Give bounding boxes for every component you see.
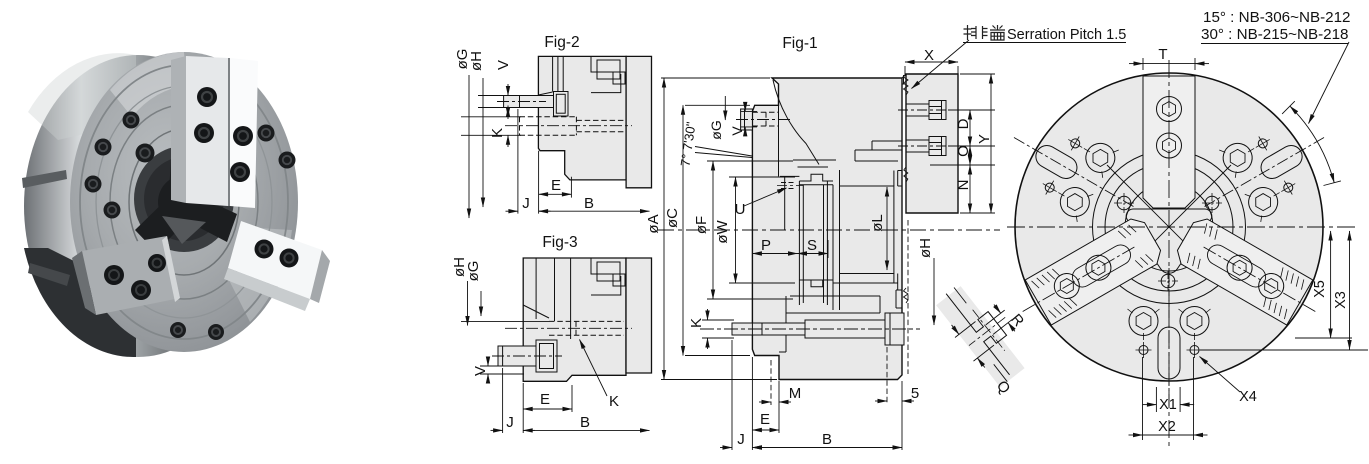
fig1 serration zigzag top [904, 74, 909, 213]
svg-text:øF: øF [693, 216, 710, 234]
fig1 wedge angle lines [695, 147, 752, 158]
fig3 inner verticals [523, 258, 570, 339]
svg-text:E: E [540, 391, 550, 408]
dim X1 [1156, 387, 1180, 412]
fig2 dim B [539, 210, 650, 212]
fig1 lower serration hidden [907, 220, 909, 374]
fig2 thread axis [505, 125, 632, 127]
fig1 dim phiW [729, 177, 795, 283]
svg-text:X3: X3 [1333, 291, 1349, 309]
svg-text:30° : NB-215~NB-218: 30° : NB-215~NB-218 [1201, 26, 1349, 43]
svg-text:K: K [688, 318, 705, 328]
fig1 dim phiF [707, 161, 793, 299]
dim X3 [1349, 231, 1351, 350]
svg-text:Y: Y [976, 134, 993, 144]
svg-text:X1: X1 [1159, 397, 1177, 413]
fig1 draw screw [732, 320, 885, 338]
fig3 dim V [487, 357, 489, 366]
Fig-3 [461, 258, 652, 433]
fig1 plunger castle tab [799, 174, 833, 181]
svg-text:X: X [924, 47, 934, 64]
fig1 dim K [702, 320, 734, 338]
fig1 serration mid zigzag [904, 167, 908, 182]
svg-text:øG: øG [708, 120, 724, 139]
serration note [964, 25, 1006, 40]
svg-text:N: N [955, 180, 972, 191]
fig1 dim phiA [661, 78, 777, 380]
face [70, 52, 298, 352]
svg-text:S: S [807, 237, 817, 254]
fig3 K leader [580, 340, 608, 397]
fig2 dim E [539, 193, 572, 195]
fig2 body piece1 [538, 56, 626, 179]
fig1 dim phiC [685, 105, 750, 355]
fig2 nut [554, 92, 569, 117]
svg-text:øG: øG [465, 261, 482, 282]
jaw 90deg [1143, 76, 1195, 208]
fig2 dim J arrows [506, 210, 518, 212]
fig2 dim V [507, 84, 509, 96]
fig2 dim phiH [482, 78, 484, 207]
fig2 inner verticals [538, 56, 563, 110]
fig1 dim phiH [933, 258, 935, 325]
svg-text:V: V [729, 126, 745, 136]
svg-text:X4: X4 [1239, 389, 1257, 405]
fig3 dim J arrows [491, 429, 503, 431]
gray band [936, 286, 1024, 387]
front view [993, 42, 1368, 448]
top jaw [171, 56, 186, 203]
svg-text:B: B [822, 431, 832, 448]
NB leader [1309, 42, 1350, 124]
fig3 dim E [523, 408, 572, 410]
svg-text:Fig-2: Fig-2 [544, 34, 579, 51]
outer circle [1015, 73, 1323, 381]
jaw 330deg [1025, 214, 1165, 325]
fig1 body outline [752, 78, 902, 380]
svg-text:E: E [760, 411, 770, 428]
spider [135, 148, 237, 252]
drum slot grooves [22, 170, 67, 188]
fig1 dim V top [741, 111, 757, 127]
fig1 master jaw interior [855, 141, 902, 161]
face screws [85, 112, 296, 341]
fig3 body piece1 [523, 258, 626, 381]
fig1 serration leader [912, 40, 970, 89]
fig3 jaw nest detail [591, 258, 626, 274]
jaw 210deg [1172, 214, 1312, 325]
center cross diagonals [1107, 165, 1231, 289]
svg-text:øL: øL [869, 214, 886, 232]
dim Q [955, 321, 994, 361]
fig3 body piece2 [626, 258, 652, 373]
svg-text:J: J [506, 414, 514, 431]
right jaw [228, 221, 322, 299]
tslot profile [946, 280, 1027, 375]
Fig-1 [658, 40, 1000, 450]
fig1 lower interior [779, 274, 898, 353]
svg-text:Fig-1: Fig-1 [782, 35, 817, 52]
fig3 nut [536, 340, 557, 372]
fig2 dim phiG [468, 75, 470, 218]
fig1 jaw block [906, 74, 958, 213]
svg-text:D: D [955, 118, 972, 129]
cross screws r52 [1114, 193, 1222, 291]
fig1 dim M [759, 401, 771, 403]
svg-text:J: J [737, 431, 745, 448]
fig1 dim S [798, 253, 829, 255]
fig1 dim J [720, 447, 732, 449]
svg-text:øA: øA [645, 214, 662, 233]
svg-text:K: K [609, 393, 619, 410]
fig3 stud axis [492, 355, 562, 357]
svg-text:V: V [495, 60, 512, 70]
svg-text:R: R [1007, 311, 1027, 330]
fig2 body piece2 [626, 56, 651, 187]
X4 leader [1200, 357, 1241, 393]
fig1 centerline [658, 229, 1000, 231]
angle arc [1290, 106, 1334, 183]
fig1 U leader [744, 188, 787, 206]
svg-text:7° 7'30": 7° 7'30" [678, 120, 699, 167]
dim X2 [1143, 357, 1194, 440]
svg-text:P: P [761, 237, 771, 254]
svg-text:Serration Pitch 1.5: Serration Pitch 1.5 [1007, 27, 1126, 43]
plunger triangle [1126, 209, 1212, 273]
fig1 dims D O N Y [930, 74, 995, 213]
svg-text:O: O [955, 145, 972, 157]
fig1 bottom ext lines [732, 340, 902, 450]
photo of chuck [22, 52, 330, 357]
svg-text:V: V [472, 366, 489, 376]
svg-text:øH: øH [468, 51, 485, 71]
fig2 stud [504, 96, 554, 108]
fig1 U hidden hole [780, 175, 799, 177]
fig1 dim phiL [886, 187, 888, 270]
inner circles [1093, 151, 1246, 304]
fig1 front face curve [773, 80, 819, 165]
fig2 jaw nest detail [591, 56, 626, 72]
fig1 plunger verticals [799, 170, 839, 310]
fig1 dim E [752, 429, 779, 431]
fig3 dim phiG [480, 291, 482, 316]
svg-text:T: T [1158, 46, 1167, 63]
slot 30deg [1183, 102, 1345, 243]
fig1 adapter bolt [741, 109, 753, 130]
dim T [1143, 58, 1195, 70]
fig1 dim P [752, 253, 797, 255]
svg-text:K: K [489, 128, 506, 138]
centerlines [1007, 226, 1356, 228]
fig2 ext lines [461, 96, 571, 214]
fig3 hidden thread [549, 321, 624, 335]
dim X5 [1200, 338, 1368, 350]
fig1 dim phiG top [724, 96, 726, 120]
fig2 dim K [507, 106, 509, 117]
fig3 ext lines [461, 321, 572, 433]
svg-text:B: B [584, 195, 594, 212]
fig3 dim B [523, 429, 649, 431]
fig3 stud [498, 346, 536, 366]
R/Q detail [930, 271, 1040, 390]
svg-text:M: M [789, 385, 802, 402]
svg-text:U: U [735, 201, 746, 218]
svg-text:5: 5 [911, 385, 919, 402]
tslot axes [969, 317, 1005, 345]
svg-text:X2: X2 [1158, 419, 1176, 435]
fig3 dim phiH [467, 281, 469, 326]
fig1 piston [840, 186, 894, 274]
drum side [24, 55, 252, 357]
fig1 dim X [905, 66, 958, 76]
fig2 hidden thread [520, 117, 627, 136]
fig2 stud axis [497, 101, 546, 103]
svg-text:Fig-3: Fig-3 [542, 234, 577, 251]
fig1 dim B [752, 447, 902, 449]
svg-text:øH: øH [917, 238, 934, 258]
center bore [134, 146, 234, 252]
Fig-2 [461, 56, 652, 218]
svg-text:B: B [580, 414, 590, 431]
dim R [986, 310, 1012, 334]
svg-text:X5: X5 [1312, 280, 1328, 298]
svg-text:J: J [522, 195, 530, 212]
svg-text:15° : NB-306~NB-212: 15° : NB-306~NB-212 [1203, 9, 1351, 26]
bottom-left jaw [82, 236, 180, 315]
fig1 jaw bolts [898, 101, 952, 156]
svg-text:øW: øW [714, 220, 731, 244]
fig3 thread axis [505, 327, 632, 329]
fig1 dim 5 [875, 400, 887, 402]
svg-text:E: E [551, 177, 561, 194]
slot 270deg [1128, 267, 1211, 406]
svg-text:øC: øC [664, 208, 681, 228]
slot 150deg [993, 102, 1155, 243]
